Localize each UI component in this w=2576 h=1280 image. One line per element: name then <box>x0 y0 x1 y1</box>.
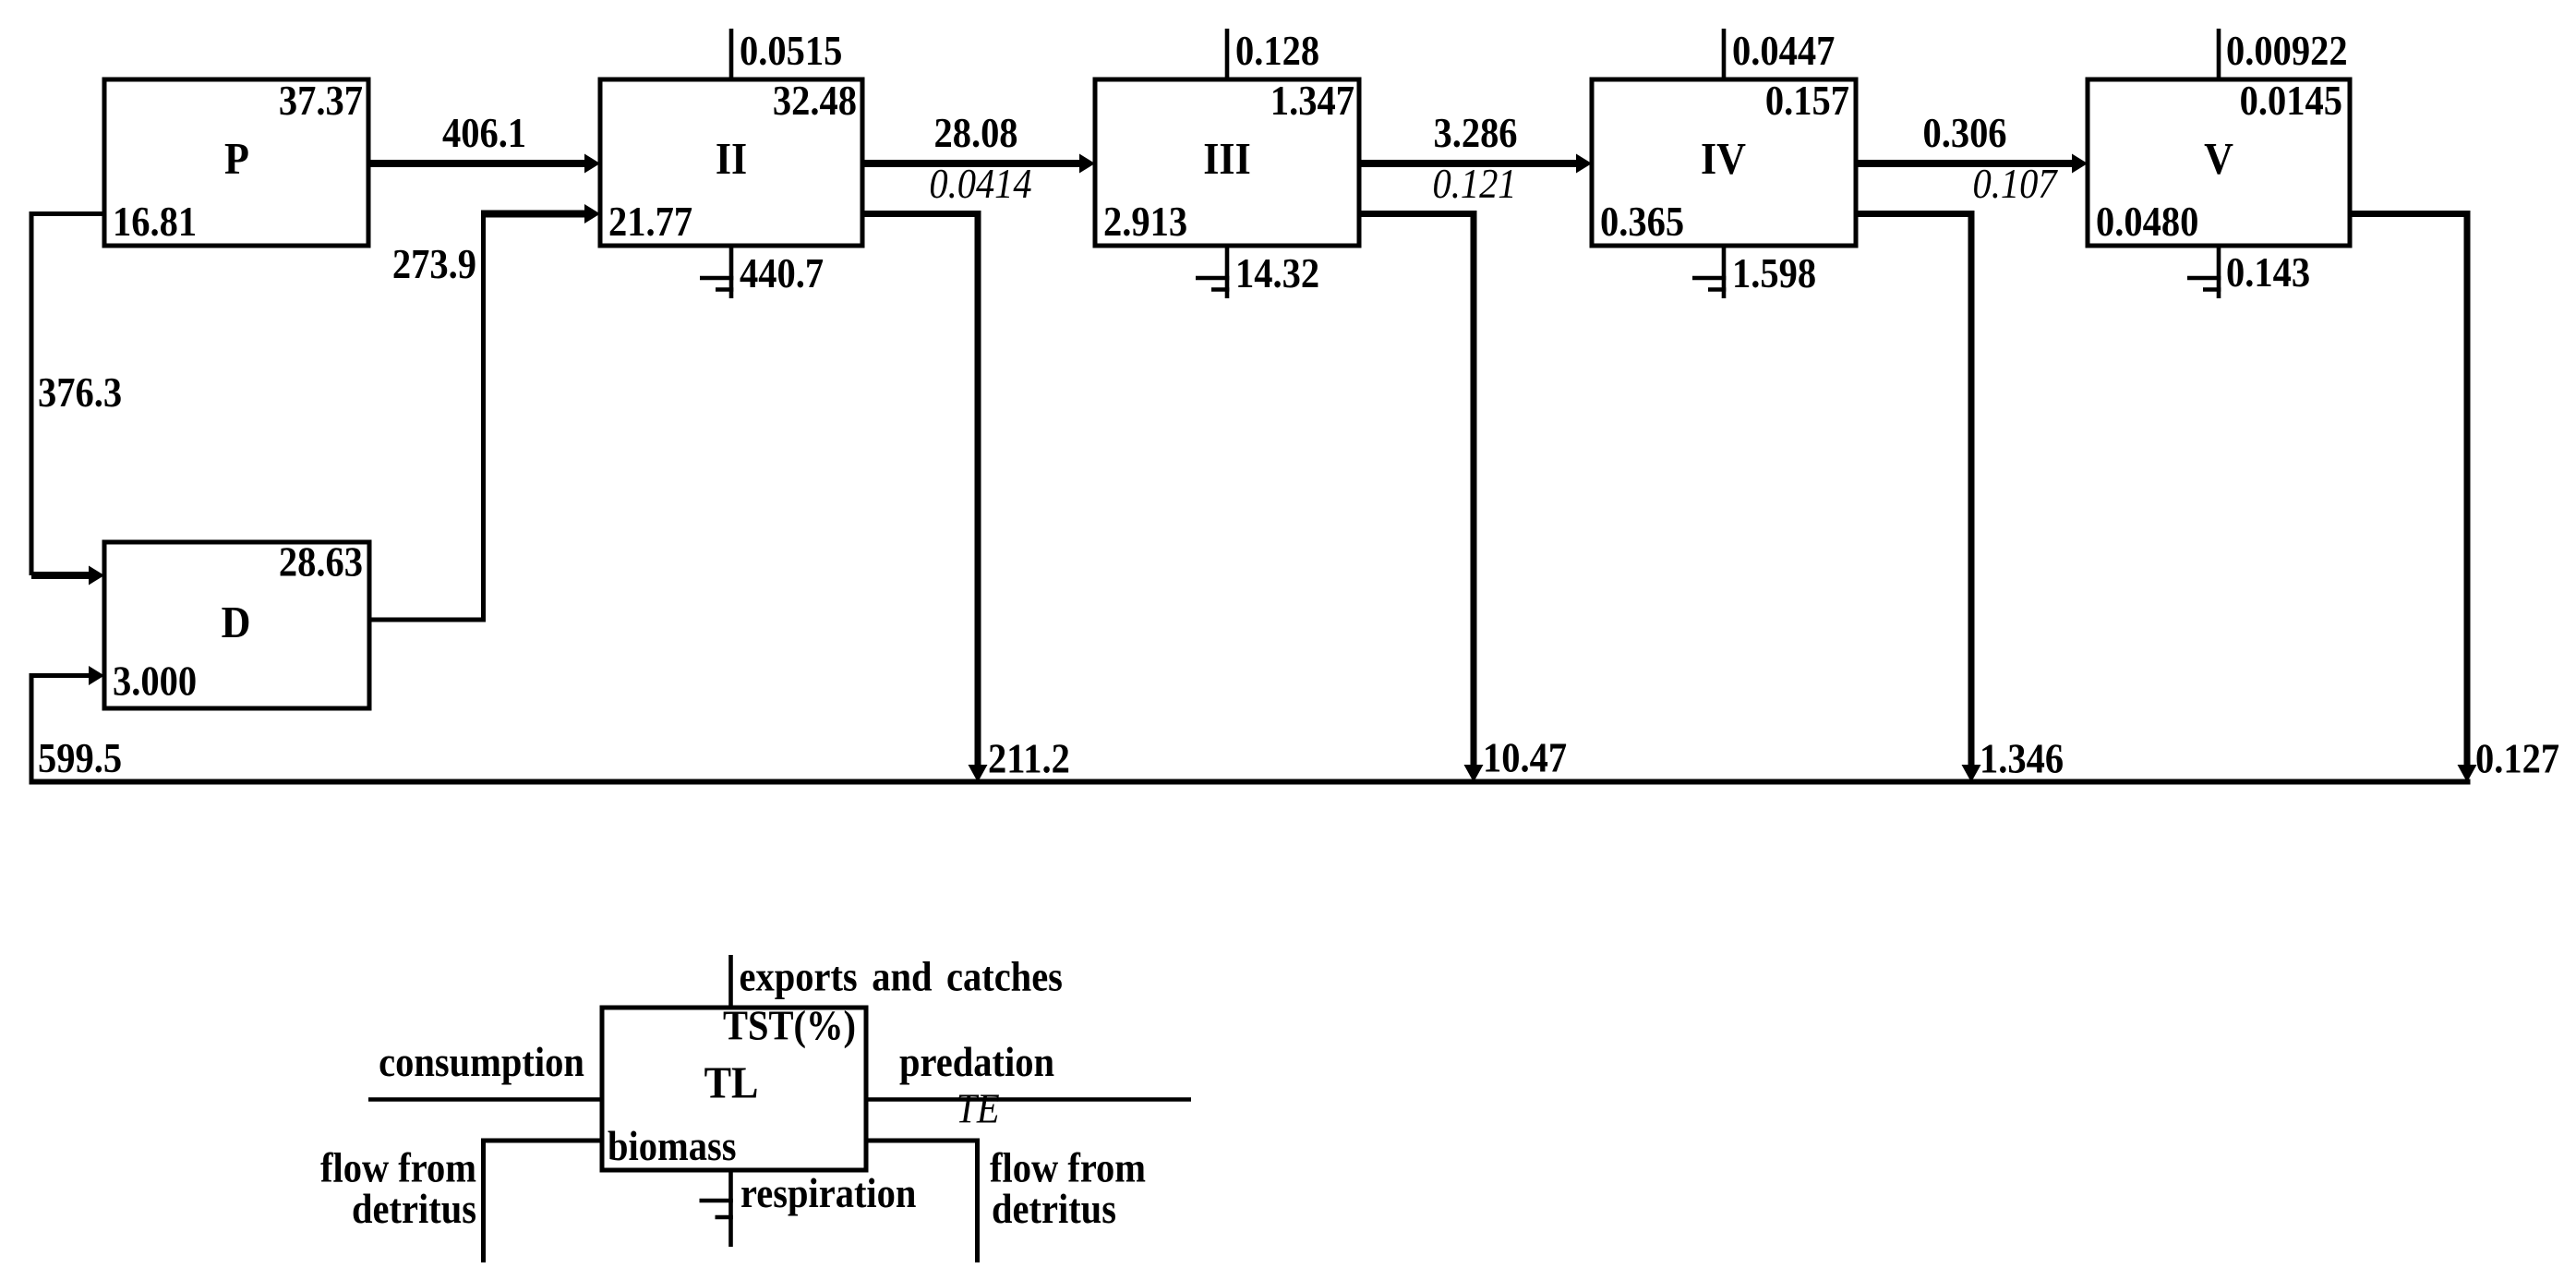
svg-text:flow from: flow from <box>320 1146 476 1191</box>
arrowhead 273.9 into II <box>584 204 600 223</box>
svg-text:biomass: biomass <box>608 1124 736 1169</box>
legend predation wire <box>866 1097 1191 1102</box>
svg-text:TST(%): TST(%) <box>723 1004 856 1049</box>
arrowhead II to III <box>1079 154 1095 174</box>
detritus spine wire <box>30 779 2471 785</box>
svg-text:V: V <box>2204 134 2233 185</box>
svg-text:37.37: 37.37 <box>279 78 363 124</box>
wire D out to II <box>369 216 484 620</box>
wire spine up into D <box>31 676 90 782</box>
svg-text:1.347: 1.347 <box>1270 78 1354 124</box>
svg-text:2.913: 2.913 <box>1103 199 1187 245</box>
arrowhead II detritus down <box>969 765 988 782</box>
svg-text:P: P <box>224 134 249 185</box>
wire P biomass out left <box>31 214 104 576</box>
svg-text:detritus: detritus <box>992 1187 1116 1232</box>
box D <box>104 542 369 708</box>
svg-text:0.0447: 0.0447 <box>1732 29 1835 74</box>
wire flow II to III <box>862 160 1082 167</box>
box P <box>104 79 368 246</box>
respiration ground II <box>700 246 733 298</box>
wire export II <box>729 29 734 79</box>
svg-text:0.00922: 0.00922 <box>2226 29 2348 74</box>
respiration ground V <box>2187 246 2221 298</box>
svg-text:21.77: 21.77 <box>608 199 692 245</box>
svg-text:0.365: 0.365 <box>1600 199 1684 245</box>
respiration ground IV <box>1692 246 1726 298</box>
wire 376.3 arrow into D <box>31 572 90 579</box>
svg-text:3.000: 3.000 <box>113 659 197 705</box>
svg-text:0.0515: 0.0515 <box>740 29 842 74</box>
svg-text:406.1: 406.1 <box>442 111 526 156</box>
arrowhead V detritus down <box>2458 765 2477 782</box>
legend consumption wire <box>368 1097 602 1102</box>
svg-text:1.346: 1.346 <box>1980 737 2064 782</box>
wire export IV <box>1722 29 1727 79</box>
wire III to detritus <box>1359 214 1474 767</box>
svg-text:16.81: 16.81 <box>113 199 197 245</box>
svg-text:0.143: 0.143 <box>2226 250 2310 296</box>
box V <box>2088 79 2350 246</box>
legend biomass corner wire <box>484 1141 603 1262</box>
svg-text:32.48: 32.48 <box>773 78 857 124</box>
svg-text:predation: predation <box>899 1040 1054 1085</box>
legend box TL <box>602 1008 866 1170</box>
svg-text:211.2: 211.2 <box>988 737 1070 782</box>
svg-text:II: II <box>716 134 747 185</box>
wire V to detritus <box>2350 214 2467 767</box>
legend export wire <box>728 955 733 1008</box>
wire flow III to IV <box>1359 160 1579 167</box>
svg-text:flow from: flow from <box>990 1146 1146 1191</box>
svg-text:440.7: 440.7 <box>740 251 824 296</box>
box IV <box>1592 79 1856 246</box>
svg-text:TE: TE <box>956 1087 999 1132</box>
svg-text:0.0145: 0.0145 <box>2240 78 2342 124</box>
svg-text:273.9: 273.9 <box>392 242 476 287</box>
svg-text:detritus: detritus <box>352 1187 476 1232</box>
wire 273.9 arrow into II <box>481 211 587 218</box>
svg-text:consumption: consumption <box>379 1040 584 1085</box>
svg-text:376.3: 376.3 <box>38 370 122 416</box>
wire flow IV to V <box>1856 160 2075 167</box>
svg-text:28.63: 28.63 <box>279 540 363 586</box>
svg-text:0.107: 0.107 <box>1972 162 2058 207</box>
legend respiration ground <box>700 1170 733 1247</box>
respiration ground III <box>1196 246 1229 298</box>
arrowhead 599.5 into D <box>89 666 104 685</box>
svg-text:D: D <box>222 598 251 648</box>
wire export V <box>2217 29 2221 79</box>
legend flow-from-detritus right wire <box>866 1141 978 1262</box>
arrowhead III detritus down <box>1464 765 1484 782</box>
wire IV to detritus <box>1856 214 1971 767</box>
wire II to detritus <box>862 214 978 767</box>
arrowhead P to II <box>584 154 600 174</box>
svg-text:exports and catches: exports and catches <box>740 955 1063 1000</box>
svg-text:3.286: 3.286 <box>1433 111 1517 156</box>
svg-text:0.306: 0.306 <box>1922 111 2006 156</box>
arrowhead IV detritus down <box>1962 765 1981 782</box>
arrowhead 376.3 into D <box>89 566 104 586</box>
svg-text:IV: IV <box>1701 134 1746 185</box>
svg-text:0.128: 0.128 <box>1235 29 1319 74</box>
svg-text:14.32: 14.32 <box>1235 251 1319 296</box>
svg-text:0.157: 0.157 <box>1765 78 1849 124</box>
svg-text:0.127: 0.127 <box>2475 737 2559 782</box>
arrowhead IV to V <box>2072 154 2088 174</box>
wire export III <box>1225 29 1230 79</box>
svg-text:respiration: respiration <box>740 1171 917 1216</box>
svg-text:10.47: 10.47 <box>1483 736 1567 781</box>
svg-text:0.121: 0.121 <box>1432 162 1516 207</box>
arrowhead III to IV <box>1576 154 1592 174</box>
svg-text:1.598: 1.598 <box>1732 251 1816 296</box>
svg-text:599.5: 599.5 <box>38 736 122 781</box>
svg-text:III: III <box>1203 134 1250 185</box>
wire flow P to II <box>368 160 587 167</box>
box III <box>1095 79 1359 246</box>
svg-text:28.08: 28.08 <box>933 111 1017 156</box>
svg-text:0.0480: 0.0480 <box>2096 199 2198 245</box>
svg-text:TL: TL <box>704 1057 759 1108</box>
svg-text:0.0414: 0.0414 <box>929 162 1031 207</box>
box II <box>600 79 862 246</box>
